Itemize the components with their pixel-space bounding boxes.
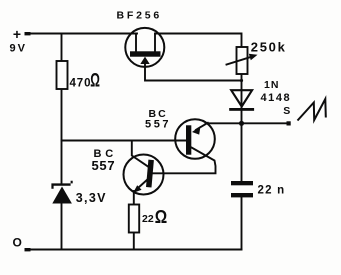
svg-text:BF256: BF256 <box>117 9 163 21</box>
svg-text:+: + <box>13 26 21 42</box>
svg-text:1N: 1N <box>264 79 279 91</box>
svg-text:250k: 250k <box>251 39 287 54</box>
svg-text:3,3V: 3,3V <box>76 191 107 205</box>
svg-text:Ω: Ω <box>90 70 100 92</box>
svg-text:22: 22 <box>142 213 154 225</box>
svg-text:557: 557 <box>92 158 116 173</box>
svg-text:22 n: 22 n <box>258 184 286 196</box>
svg-text:470: 470 <box>70 77 92 89</box>
svg-text:4148: 4148 <box>261 92 292 104</box>
svg-text:S: S <box>283 105 290 117</box>
svg-text:9V: 9V <box>10 42 27 54</box>
svg-text:Ω: Ω <box>155 207 167 227</box>
svg-text:O: O <box>13 236 22 250</box>
svg-text:557: 557 <box>145 119 171 131</box>
